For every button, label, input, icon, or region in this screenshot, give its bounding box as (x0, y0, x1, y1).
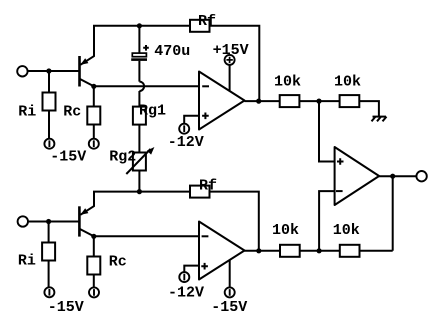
svg-text:-15V: -15V (48, 299, 84, 316)
svg-text:Rf: Rf (199, 178, 217, 195)
svg-text:Rg1: Rg1 (139, 103, 166, 120)
svg-text:Rc: Rc (63, 104, 81, 121)
svg-text:Rg2: Rg2 (109, 148, 136, 165)
svg-text:Rc: Rc (109, 253, 127, 270)
svg-text:-15V: -15V (211, 299, 247, 316)
svg-text:Ri: Ri (18, 103, 36, 120)
svg-text:-12V: -12V (168, 134, 204, 151)
svg-text:10k: 10k (333, 222, 360, 239)
svg-text:10k: 10k (274, 73, 301, 90)
svg-text:-15V: -15V (50, 149, 86, 166)
svg-text:+15V: +15V (213, 42, 249, 59)
svg-text:10k: 10k (334, 73, 361, 90)
svg-text:Rf: Rf (198, 13, 216, 30)
svg-text:10k: 10k (272, 222, 299, 239)
svg-text:-12V: -12V (168, 284, 204, 301)
svg-text:470u: 470u (154, 43, 190, 60)
svg-text:Ri: Ri (18, 252, 36, 269)
